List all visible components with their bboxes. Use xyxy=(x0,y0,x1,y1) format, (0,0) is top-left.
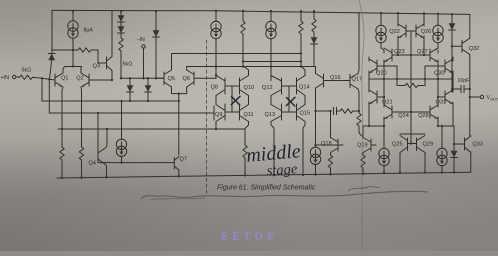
svg-text:Q33: Q33 xyxy=(472,141,483,147)
wire bus C xyxy=(58,128,245,130)
node busA tap121 xyxy=(120,100,122,102)
wire Q8-Q10 base join xyxy=(225,85,240,87)
current source I9 xyxy=(211,21,221,38)
wire Q2 base to Q3 emitter xyxy=(89,79,112,81)
transistor Q12 xyxy=(271,76,282,96)
wire CS4 bottom stub xyxy=(315,164,317,174)
svg-text:Q3: Q3 xyxy=(93,64,100,70)
svg-text:Q26: Q26 xyxy=(421,29,432,35)
wire Q24 base spine top xyxy=(392,111,411,113)
wire Q4 collector up xyxy=(106,129,107,148)
wire q21 col xyxy=(383,79,385,97)
X annotation left xyxy=(231,96,240,105)
wire Q20 base join xyxy=(377,66,397,86)
wire cs1 to R2 xyxy=(73,49,78,51)
transistor Q16 xyxy=(316,74,324,89)
wire Q14 top to bus60 xyxy=(302,67,306,76)
diode D2 xyxy=(118,15,125,22)
wire Q27 coll diag xyxy=(437,50,439,53)
wire Q27 emitter down xyxy=(437,60,439,79)
wire Q21 coll up xyxy=(368,79,370,92)
wire Q15 emitter down xyxy=(303,122,305,175)
node rail tap x330 xyxy=(329,173,331,175)
node Q2 base join xyxy=(111,79,113,81)
current source I1 8uA xyxy=(68,21,78,38)
wire Q31 base join xyxy=(438,96,445,98)
svg-text:stage: stage xyxy=(266,161,298,179)
wire y126 right xyxy=(438,125,454,127)
resistor R4 xyxy=(60,147,64,160)
wire R12 right link xyxy=(418,85,425,87)
svg-text:Q11: Q11 xyxy=(244,112,254,118)
node +IN junction A xyxy=(41,77,43,79)
transistor Q17 xyxy=(350,74,358,90)
node rail tap x398 xyxy=(397,12,399,14)
transistor Q4 xyxy=(98,148,106,166)
wire R9 bottom stub xyxy=(244,158,246,175)
wire Q4-Q7 base link xyxy=(98,162,174,164)
wire Q3 collector to rail xyxy=(111,11,113,56)
svg-text:Q15: Q15 xyxy=(300,111,311,117)
node rail tap x441 xyxy=(441,171,443,173)
wire Q20 coll up xyxy=(368,57,370,61)
node output cap tap xyxy=(469,88,471,90)
wire Q28 coll up xyxy=(437,97,439,107)
diode D5 xyxy=(127,85,134,92)
node bus60 tap216 xyxy=(215,65,217,67)
svg-text:Q31: Q31 xyxy=(436,100,447,106)
wire Q4 emitter to rail xyxy=(105,165,108,177)
wire Q19 emitter stub xyxy=(362,153,364,156)
wire column 156 upper xyxy=(155,11,157,31)
wire cap to R11 xyxy=(337,110,341,112)
wire R6col to bus60 xyxy=(242,62,244,67)
node q33 base tap xyxy=(453,143,455,145)
node input pair top xyxy=(72,65,74,67)
wire Q13 emitter down xyxy=(271,122,274,176)
wire CS2 top stub xyxy=(121,101,123,139)
wire D8 bottom stub xyxy=(453,158,455,173)
node cs1 out xyxy=(72,49,74,51)
transistor Q24 xyxy=(384,105,392,119)
node busB tap98 xyxy=(97,112,99,114)
transistor Q28 xyxy=(430,105,438,119)
svg-text:Q18: Q18 xyxy=(321,141,332,147)
resistor R5 xyxy=(79,147,83,160)
node rail tap x438 xyxy=(437,12,439,14)
wire bus A left drop xyxy=(41,78,43,101)
node rail tap x245 xyxy=(244,174,246,176)
wire center spine xyxy=(410,88,412,144)
node bus60 tap243 xyxy=(242,65,244,67)
transistor Q20 xyxy=(369,59,377,73)
pencil squiggle underline xyxy=(141,191,428,199)
wire Q32 emitter down xyxy=(469,55,471,136)
resistor 5k input xyxy=(20,75,33,79)
current source I8 xyxy=(437,148,447,165)
node bus79 tap397 xyxy=(396,78,398,80)
wire Q28 emitter down xyxy=(437,117,439,126)
svg-text:EETOP: EETOP xyxy=(221,231,278,243)
node busC tap62 xyxy=(61,128,63,130)
node bus79 tap438 xyxy=(437,78,439,80)
current source I3 xyxy=(266,21,276,38)
wire q32 base col down xyxy=(451,46,453,92)
transistor Q29 xyxy=(411,136,425,153)
wire bus60 to Q16 coll xyxy=(315,67,317,74)
wire Q24 coll up xyxy=(383,97,385,107)
wire busB end stub xyxy=(213,106,215,120)
wire bus B left drop xyxy=(48,79,50,113)
wire Q17 emitter down xyxy=(358,89,359,111)
wire diode D6 stub bottom xyxy=(147,92,149,101)
resistor R11 xyxy=(340,109,353,113)
svg-text:+IN: +IN xyxy=(1,75,10,81)
resistor R14 xyxy=(361,155,365,168)
svg-text:Q5: Q5 xyxy=(168,76,175,82)
node rail tap x62 xyxy=(61,177,63,179)
wire Q28 base spine top xyxy=(411,111,430,113)
transistor Q25 xyxy=(400,136,411,153)
current source I5 xyxy=(376,25,386,42)
node bus74 tap121 xyxy=(120,77,122,79)
svg-text:Q27: Q27 xyxy=(417,49,428,55)
wire buffer column down xyxy=(178,94,180,155)
wire -IN down to bus xyxy=(143,48,145,78)
wire Q23 emitter down xyxy=(383,60,385,79)
wire CS-mid top stub xyxy=(215,11,217,22)
current source I4 xyxy=(310,147,320,164)
node wireA tap301 xyxy=(300,60,302,62)
wire R8-D7 link xyxy=(313,32,315,38)
transistor Q6 xyxy=(187,70,216,87)
wire bus79 xyxy=(369,78,453,80)
node branch tap 315 xyxy=(314,110,316,112)
transistor Q22 xyxy=(398,24,406,38)
wire R9 top stub xyxy=(244,129,246,145)
resistor R8 xyxy=(312,19,316,32)
crease line xyxy=(359,0,364,251)
wire wireA bus xyxy=(243,61,301,63)
node y126 tap442 xyxy=(441,125,443,127)
node cs 8uA rail tap xyxy=(72,10,74,12)
wire R11 to Q17e col xyxy=(353,110,359,112)
wire Q31 emitter down xyxy=(452,102,454,126)
wire bottom supply rail xyxy=(57,172,471,178)
diode D7 xyxy=(311,37,318,44)
wire CS2 bottom stub xyxy=(121,156,123,162)
node busC tap216 xyxy=(215,128,217,130)
wire Q18 base feed xyxy=(316,144,339,146)
wire q31 col xyxy=(437,79,439,97)
svg-text:Q20: Q20 xyxy=(376,71,387,77)
node rail tap x315 xyxy=(314,173,316,175)
transistor Q7 xyxy=(174,157,179,171)
wire Q8e-Q9c link xyxy=(215,96,217,105)
node q27 base xyxy=(423,54,425,56)
node wire163 tap121 xyxy=(120,161,122,163)
node rail tap x384 xyxy=(383,172,385,174)
wire R6 bottom stub xyxy=(242,34,244,62)
svg-text:Q4: Q4 xyxy=(89,161,96,167)
node q18 base tap xyxy=(314,144,316,146)
wire CS7 bottom stub xyxy=(383,166,385,173)
node rail tap x400 xyxy=(399,171,401,173)
wire R6 top stub xyxy=(242,11,244,21)
wire mid bus74 xyxy=(121,77,164,79)
wire Q1-Q2 top join xyxy=(63,67,82,74)
svg-text:Q13: Q13 xyxy=(265,112,276,118)
wire Q21 emitter down xyxy=(368,102,370,126)
node rail tap x156 xyxy=(155,10,157,12)
transistor Q3 xyxy=(107,57,113,71)
wire Q22 coll up xyxy=(397,13,399,26)
resistor R7 xyxy=(299,21,303,34)
transistor Q27 xyxy=(430,48,438,62)
X annotation right xyxy=(286,97,295,106)
wire R10 top stub xyxy=(358,111,360,113)
node q25q29 base xyxy=(410,142,412,144)
wire Q7 emitter to rail xyxy=(178,170,180,176)
wire diode D5 stub top xyxy=(129,78,131,85)
wire diode D6 stub top xyxy=(147,78,149,85)
wire CS3 top stub xyxy=(270,11,272,22)
wire R7 top stub xyxy=(300,11,302,21)
node branch tap 359 xyxy=(358,110,360,112)
transistor Q33 xyxy=(465,136,471,152)
node bus74 tap130 xyxy=(129,77,131,79)
pencil squiggle right xyxy=(348,186,380,191)
wire Q10 top to bus60 xyxy=(243,67,249,76)
current source I7 xyxy=(379,148,389,165)
svg-text:Figure 61. Simplified Schemati: Figure 61. Simplified Schematic xyxy=(217,185,316,192)
node +IN terminal xyxy=(13,75,16,78)
resistor R2 xyxy=(78,48,91,52)
wire column 121 lower xyxy=(120,51,122,78)
wire Q10e-Q11c link xyxy=(248,96,250,105)
node busA tap130 xyxy=(129,100,131,102)
node busC tap81 xyxy=(80,128,82,130)
wire R5 bottom stub xyxy=(81,160,83,178)
wire Q23 coll diag xyxy=(383,50,385,53)
wire Q32 coll up xyxy=(469,14,471,38)
wire Q31 coll up xyxy=(452,79,454,92)
node y126 tap369 xyxy=(368,125,370,127)
wire Q32 base feed xyxy=(452,45,462,47)
diode D1 xyxy=(48,54,55,61)
transistor Q9 xyxy=(216,104,225,122)
wire R4 top stub xyxy=(61,129,63,147)
node +IN junction B xyxy=(48,78,50,80)
node bus74 tap156 xyxy=(155,77,157,79)
diode D6 xyxy=(145,85,152,92)
svg-text:Q28: Q28 xyxy=(418,113,429,119)
node rail tap x216 xyxy=(215,10,217,12)
wire R13 to rail xyxy=(330,168,332,174)
node bus60 tap301 xyxy=(300,65,302,67)
wire CS-mid bottom xyxy=(215,39,217,79)
wire Q33 base feed xyxy=(454,143,465,145)
wire R5 top stub xyxy=(81,129,83,147)
wire top-left corner down xyxy=(51,11,53,53)
wire Q22-Q26 base join xyxy=(406,30,416,32)
wire bus B xyxy=(49,112,214,114)
diode D3 xyxy=(118,26,125,33)
resistor R6 xyxy=(241,21,245,34)
svg-text:Q9: Q9 xyxy=(215,112,222,118)
node rail tap x243 xyxy=(242,10,244,12)
node wire1 tap301 xyxy=(300,52,302,54)
wire Q23-Q27 base wire xyxy=(392,54,430,56)
wire Q3 emitter down xyxy=(111,71,113,81)
resistor R13 xyxy=(328,155,332,168)
node rail tap x274 xyxy=(273,174,275,176)
svg-text:−IN: −IN xyxy=(137,37,145,43)
node cluster1 leftdot xyxy=(215,74,217,76)
transistor Q15 xyxy=(297,104,306,122)
wire column 156 lower xyxy=(155,37,157,78)
svg-text:Q7: Q7 xyxy=(180,157,187,163)
node rail tap x425 xyxy=(424,171,426,173)
wire Q25 emitter down xyxy=(399,153,401,173)
wire Q9-Q11 base join xyxy=(225,111,240,113)
node rail tap x81 xyxy=(80,177,82,179)
wire diode D1 to input node xyxy=(50,60,52,79)
wire cap left stub xyxy=(452,88,470,90)
node rail tap x424 xyxy=(423,12,425,14)
wire Q26 emitter down xyxy=(423,36,425,55)
wire resistor to Q1 base xyxy=(33,77,56,80)
wire Q25Q29 collector bus xyxy=(400,133,425,135)
diode D4 xyxy=(153,30,160,37)
node -IN terminal xyxy=(142,45,145,48)
transistor Q14 xyxy=(297,76,306,96)
node bus79 tap384 xyxy=(383,78,385,80)
wire Q12 coll join xyxy=(270,76,272,81)
node cap left junction xyxy=(451,88,453,90)
wire CS7 top stub xyxy=(383,126,385,149)
transistor Q2 xyxy=(81,73,89,87)
transistor Q10 xyxy=(240,76,249,96)
svg-text:Q22: Q22 xyxy=(389,29,400,35)
node rail tap x107 xyxy=(105,176,107,178)
wire wire1 bus xyxy=(172,53,302,55)
wire Q6 collector up xyxy=(186,67,188,71)
wire y126 left xyxy=(363,125,384,127)
wire R2 to Q3 base xyxy=(91,50,107,63)
svg-text:Q14: Q14 xyxy=(299,85,310,91)
wire Q1 emitter down xyxy=(62,87,63,146)
transistor Q18 xyxy=(331,138,344,153)
wire cs 8uA bottom xyxy=(72,38,74,66)
node spine 112 xyxy=(410,111,412,113)
wire column 121 mid1 xyxy=(120,22,122,27)
wire R14 to rail xyxy=(362,168,364,174)
wire Q22 emitter down xyxy=(397,36,399,55)
node rail tap x314 xyxy=(313,10,315,12)
node busA tap148 xyxy=(147,100,149,102)
transistor Q21 xyxy=(369,90,377,104)
section divider left xyxy=(206,40,208,196)
wire R7 bottom stub xyxy=(300,34,302,67)
wire R8 top stub xyxy=(313,11,315,19)
svg-text:Q10: Q10 xyxy=(244,85,255,91)
node q23 base xyxy=(397,54,399,56)
wire Q4 base column xyxy=(97,113,99,150)
wire cs1 to diode D1 xyxy=(52,49,73,51)
wire Q30 coll up xyxy=(452,57,454,61)
node rail tap x452 xyxy=(451,13,453,15)
wire D9 bottom stub xyxy=(451,30,453,46)
svg-text:Q8: Q8 xyxy=(211,85,218,91)
wire Q5Q6 emitter join xyxy=(172,87,187,94)
svg-text:Q23: Q23 xyxy=(394,49,405,55)
svg-text:Q29: Q29 xyxy=(423,142,434,148)
wire R12 left link xyxy=(397,85,405,87)
diode D9 xyxy=(449,23,456,30)
node rail tap x381 xyxy=(380,12,382,14)
node rail tap x301 xyxy=(300,10,302,12)
wire cs 8uA top stub xyxy=(72,11,74,21)
wire CS5 bottom stub xyxy=(381,43,384,50)
transistor Q13 xyxy=(271,104,282,122)
wire Q13-Q15 base join xyxy=(282,111,297,113)
pencil squiggle second stroke xyxy=(150,198,205,200)
node busA tap178 xyxy=(178,100,180,102)
resistor R9 xyxy=(243,145,247,158)
svg-text:10pF: 10pF xyxy=(458,78,470,84)
wire quad2 center col xyxy=(288,86,290,112)
node q32 base tap xyxy=(451,45,453,47)
wire Q5 collector up xyxy=(171,54,173,71)
node branch tap 330 xyxy=(329,110,331,112)
wire bus60 main xyxy=(187,66,316,68)
wire Q26 coll up xyxy=(423,13,425,26)
svg-text:Q25: Q25 xyxy=(392,142,403,148)
svg-text:5kΩ: 5kΩ xyxy=(22,68,32,74)
svg-text:8μA: 8μA xyxy=(84,28,94,34)
wire D9 top stub xyxy=(451,14,453,23)
wire Q30 base join xyxy=(425,66,445,86)
wire diode D5 stub bottom xyxy=(129,92,131,101)
node buffer out xyxy=(178,92,180,94)
resistor R12 xyxy=(405,83,418,87)
transistor Q1 xyxy=(55,73,63,87)
svg-text:Q32: Q32 xyxy=(469,46,480,52)
transistor Q23 xyxy=(384,48,392,62)
node wireA tap243 xyxy=(242,60,244,62)
wire center spine top xyxy=(410,31,412,84)
wire Q16-Q17 base link xyxy=(324,80,351,82)
wire Q14e-Q15c link xyxy=(304,96,306,105)
node spine mid xyxy=(410,54,412,56)
svg-text:Q12: Q12 xyxy=(262,85,273,91)
diode D8 xyxy=(451,151,458,158)
wire Q9 emitter down xyxy=(215,122,217,130)
svg-text:Q24: Q24 xyxy=(398,113,409,119)
wire output stub xyxy=(470,96,480,98)
node rail tap x302 xyxy=(302,174,304,176)
node rail tap x454 xyxy=(453,171,455,173)
wire Q18 emitter stub xyxy=(330,153,332,156)
wire CS5 top stub xyxy=(380,13,382,25)
node q31 base xyxy=(437,96,439,98)
wire R4 bottom stub xyxy=(61,160,63,178)
transistor Q31 xyxy=(445,90,453,104)
wire D8 top stub xyxy=(453,126,455,152)
node output branch xyxy=(469,96,471,98)
svg-text:Q6: Q6 xyxy=(183,76,190,82)
